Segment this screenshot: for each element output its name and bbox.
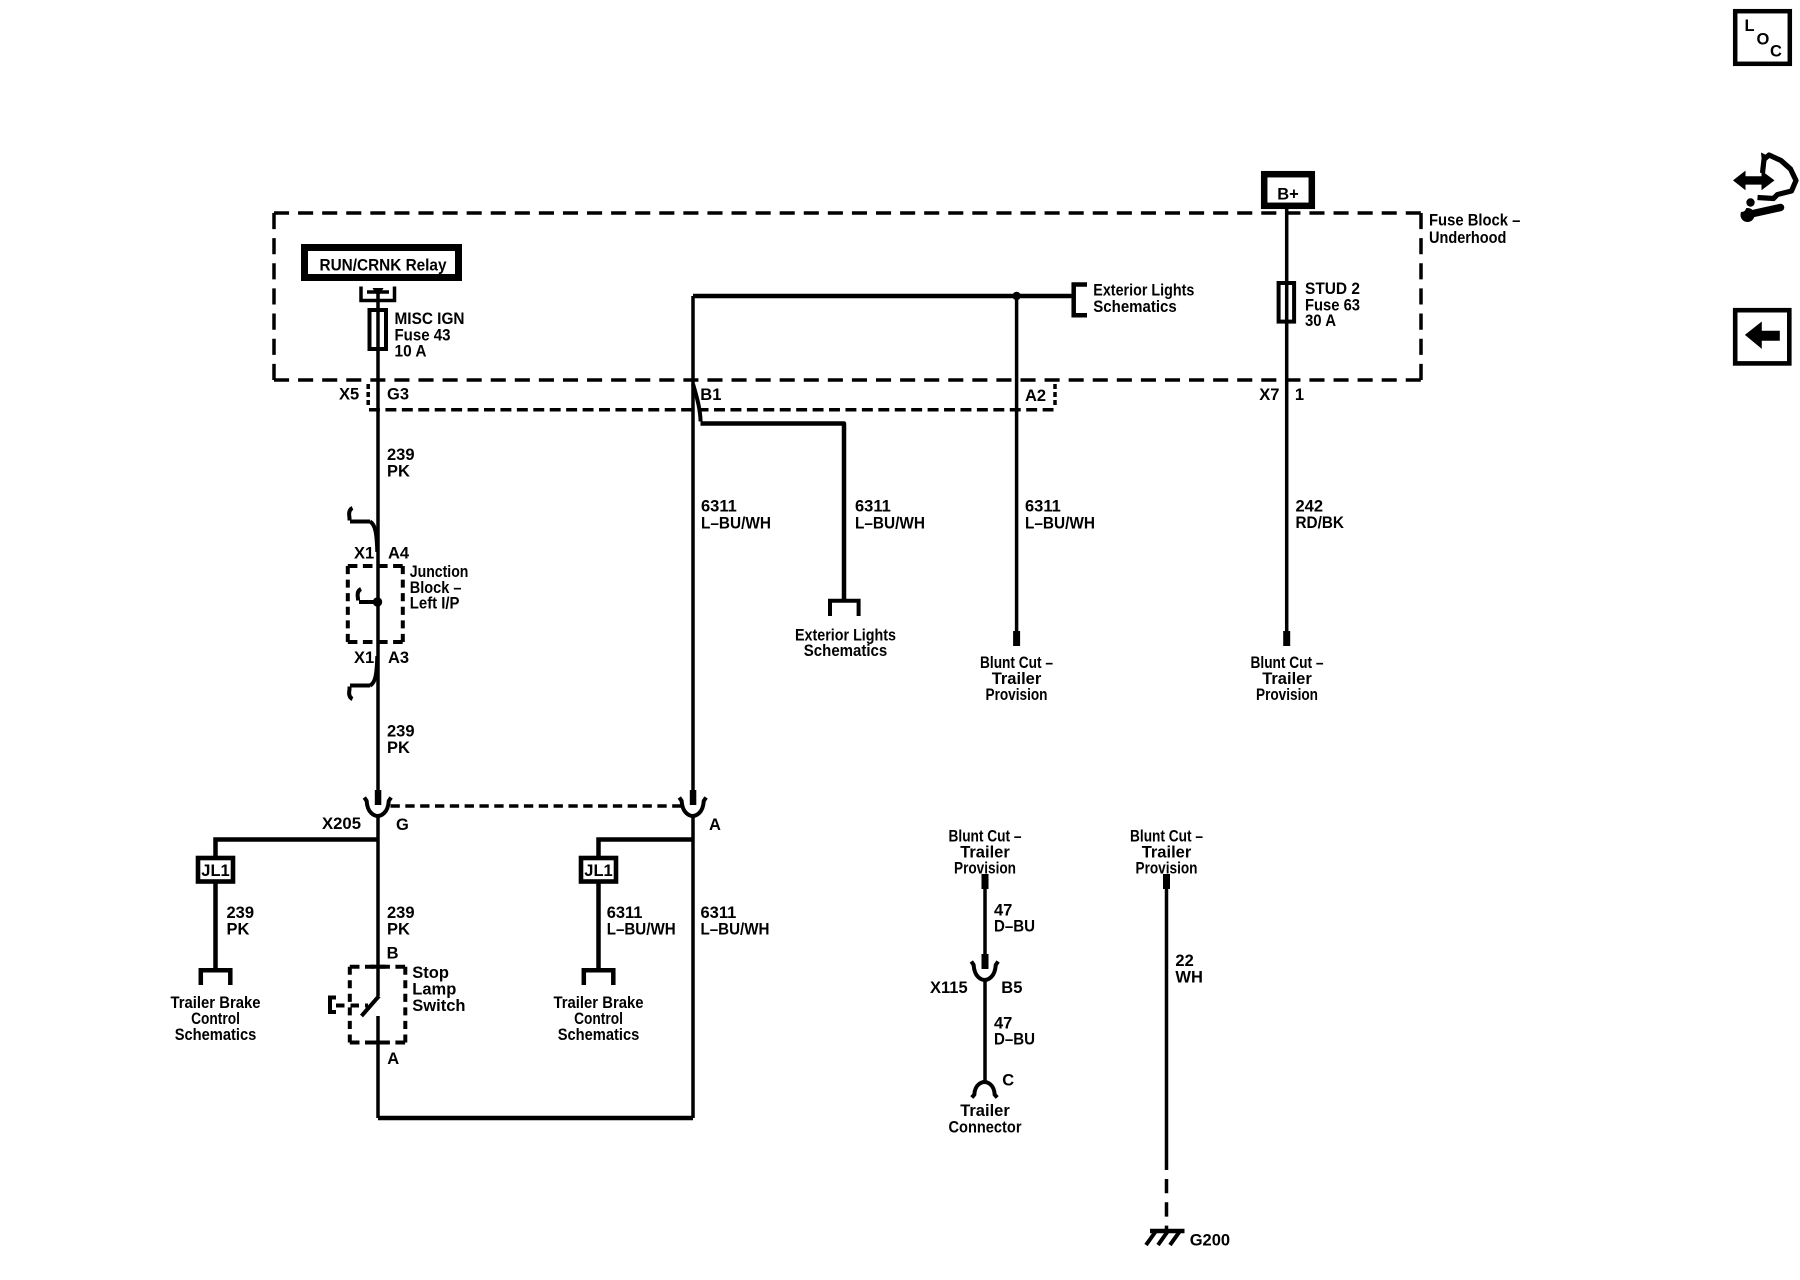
- wire bottom loop horizontal: [378, 1116, 693, 1121]
- svg-text:B: B: [387, 945, 399, 963]
- svg-text:PK: PK: [227, 921, 250, 939]
- svg-text:6311: 6311: [607, 904, 643, 922]
- svg-text:L–BU/WH: L–BU/WH: [855, 515, 925, 533]
- label MISC IGN Fuse 43 10 A: [395, 310, 465, 360]
- svg-text:L–BU/WH: L–BU/WH: [607, 921, 676, 939]
- off-page symbol Trailer Brake Control (left, down bracket): [201, 970, 231, 985]
- svg-text:STUD 2: STUD 2: [1305, 280, 1360, 298]
- wire 47 D-BU upper: [983, 889, 987, 954]
- label Trailer Brake Control Schematics (right): [554, 994, 644, 1044]
- svg-text:Stop: Stop: [412, 964, 449, 982]
- svg-text:L–BU/WH: L–BU/WH: [701, 921, 770, 939]
- splice JL1 right box: [581, 858, 616, 882]
- B+ power terminal: [1264, 174, 1312, 206]
- label 239 PK middle: [387, 723, 415, 758]
- svg-text:Trailer: Trailer: [960, 1102, 1010, 1120]
- wire 239 PK from relay to junction block (vertical): [376, 295, 380, 790]
- svg-text:X1: X1: [354, 649, 374, 667]
- label Blunt Cut - Trailer Provision (above X115): [949, 828, 1022, 878]
- wire 47 D-BU lower: [983, 979, 987, 1084]
- off-page bracket Exterior Lights Schematics (top right): [1074, 285, 1087, 316]
- fuse STUD 2 Fuse 63: [1279, 283, 1295, 322]
- svg-text:Left I/P: Left I/P: [410, 595, 460, 613]
- svg-text:239: 239: [387, 723, 415, 741]
- connector X5 dashed line: [369, 408, 1054, 412]
- svg-text:G3: G3: [387, 386, 409, 404]
- svg-text:X7: X7: [1259, 386, 1279, 404]
- svg-text:A4: A4: [388, 545, 410, 563]
- connector X5 separator tick: [366, 384, 370, 405]
- label Junction Block - Left I/P: [410, 563, 469, 613]
- fuse MISC IGN Fuse 43: [370, 310, 387, 349]
- label STUD 2 Fuse 63 30 A: [1305, 280, 1360, 330]
- svg-text:JL1: JL1: [584, 862, 612, 880]
- svg-text:Fuse Block –: Fuse Block –: [1429, 212, 1520, 230]
- label 6311 L-BU/WH (right of wire A): [701, 904, 770, 939]
- trailer connector arc: [972, 1082, 997, 1098]
- wire branch horizontal to middle 6311 drop: [701, 424, 845, 601]
- junction block internal splice hook with dot: [358, 589, 383, 607]
- svg-text:D–BU: D–BU: [994, 1031, 1035, 1049]
- svg-text:RD/BK: RD/BK: [1296, 514, 1345, 532]
- svg-text:6311: 6311: [701, 498, 737, 516]
- svg-text:C: C: [1002, 1072, 1014, 1090]
- icon diagnostic arrow and wrench: [1733, 153, 1796, 223]
- svg-text:PK: PK: [387, 463, 410, 481]
- svg-text:242: 242: [1296, 498, 1324, 516]
- wire 239 PK X205 to stop lamp switch: [376, 814, 380, 996]
- svg-text:G200: G200: [1190, 1232, 1230, 1250]
- label Stop Lamp Switch: [412, 964, 465, 1015]
- stop lamp switch blade: [362, 996, 380, 1016]
- RUN/CRNK Relay label box: [305, 248, 459, 278]
- label Trailer Brake Control Schematics (left): [171, 994, 261, 1044]
- blunt cut symbol (47 D-BU wire top): [982, 874, 989, 889]
- svg-text:A2: A2: [1025, 387, 1046, 405]
- label Blunt Cut - Trailer Provision (above 22 WH wire): [1130, 828, 1203, 878]
- svg-text:WH: WH: [1175, 969, 1203, 987]
- label Exterior Lights Schematics (middle): [795, 627, 896, 661]
- stop lamp switch actuator dashes: [336, 1004, 368, 1008]
- svg-text:Provision: Provision: [986, 686, 1048, 704]
- off-page symbol Exterior Lights Schematics (middle, down bracket): [830, 601, 859, 616]
- svg-text:L–BU/WH: L–BU/WH: [701, 515, 771, 533]
- svg-text:6311: 6311: [1025, 498, 1061, 516]
- label Blunt Cut - Trailer Provision (under A2 wire): [980, 654, 1053, 704]
- svg-text:A: A: [709, 816, 721, 834]
- connector X115 male pin: [982, 954, 989, 969]
- label 6311 L-BU/WH (JL1 right): [607, 904, 676, 939]
- wire 242 RD/BK B+ to blunt cut (vertical): [1285, 207, 1289, 631]
- off-page symbol Trailer Brake Control (right, down bracket): [584, 970, 614, 985]
- label 239 PK (above switch): [387, 904, 415, 939]
- svg-text:O: O: [1757, 31, 1770, 49]
- svg-text:RUN/CRNK Relay: RUN/CRNK Relay: [320, 257, 448, 275]
- svg-text:L: L: [1745, 17, 1755, 35]
- connector A2 separator tick: [1053, 384, 1057, 405]
- blunt cut symbol (22 WH wire): [1163, 874, 1170, 889]
- svg-text:Provision: Provision: [1256, 686, 1318, 704]
- wire branch to JL1 left: [216, 840, 379, 857]
- label Fuse Block - Underhood: [1429, 212, 1520, 248]
- svg-text:Schematics: Schematics: [175, 1026, 257, 1044]
- svg-text:Schematics: Schematics: [558, 1026, 640, 1044]
- wire JL1 right to off-page symbol: [596, 881, 601, 968]
- icon back arrow box: [1735, 310, 1789, 363]
- svg-text:PK: PK: [387, 739, 410, 757]
- svg-text:6311: 6311: [701, 904, 737, 922]
- svg-text:X115: X115: [930, 979, 968, 997]
- stop lamp switch dashed box: [350, 967, 406, 1043]
- svg-text:Lamp: Lamp: [412, 981, 456, 999]
- relay contact symbol: [361, 287, 395, 301]
- svg-text:30 A: 30 A: [1305, 312, 1336, 330]
- splice JL1 left box: [198, 858, 233, 882]
- label 242 RD/BK: [1296, 498, 1345, 533]
- label 47 D-BU lower: [994, 1015, 1035, 1049]
- svg-text:Connector: Connector: [949, 1119, 1023, 1137]
- connector X205 pin A: female cup: [679, 798, 706, 817]
- wire 6311 L-BU/WH B1 vertical: [691, 296, 695, 790]
- wire 22 WH dashed to ground: [1165, 1179, 1169, 1231]
- junction block left I/P dashed box: [348, 566, 403, 642]
- connector X115 female cup: [971, 962, 998, 981]
- svg-text:22: 22: [1175, 952, 1193, 970]
- label 239 PK (JL1 left): [227, 904, 255, 939]
- connector X205 dashed line: [391, 804, 682, 808]
- svg-text:1: 1: [1295, 386, 1304, 404]
- svg-text:239: 239: [387, 904, 415, 922]
- label Blunt Cut - Trailer Provision (under 242 wire): [1251, 654, 1324, 704]
- connector X1 A4 hook symbol: [349, 508, 377, 552]
- svg-text:Schematics: Schematics: [804, 642, 887, 660]
- label Trailer Connector: [949, 1102, 1023, 1137]
- blunt cut symbol (A2 wire): [1013, 631, 1020, 646]
- svg-text:Underhood: Underhood: [1429, 229, 1506, 247]
- svg-text:X5: X5: [339, 386, 359, 404]
- svg-text:B5: B5: [1001, 979, 1022, 997]
- wire 22 WH solid: [1165, 889, 1169, 1170]
- svg-text:L–BU/WH: L–BU/WH: [1025, 515, 1095, 533]
- connector X205 pin G: female cup: [364, 798, 391, 817]
- wire JL1 left to off-page symbol: [213, 881, 218, 968]
- connector X1 A3 hook symbol: [349, 656, 377, 699]
- connector X205 pin A: male pin: [690, 790, 697, 805]
- label 6311 L-BU/WH (middle column): [855, 498, 925, 533]
- wire from switch A to bottom loop: [376, 1016, 380, 1118]
- wire 6311 L-BU/WH A2 vertical to blunt cut: [1015, 296, 1019, 631]
- junction dot A2 wire on top horizontal: [1012, 292, 1020, 300]
- svg-text:D–BU: D–BU: [994, 918, 1035, 936]
- stop lamp switch actuator bracket: [330, 998, 336, 1013]
- icon LOC box: [1735, 11, 1790, 64]
- svg-text:C: C: [1770, 43, 1782, 61]
- svg-text:JL1: JL1: [201, 862, 229, 880]
- blunt cut symbol (242 wire): [1283, 631, 1290, 646]
- connector X205 pin G: male pin: [375, 790, 382, 805]
- svg-text:G: G: [396, 816, 409, 834]
- label Exterior Lights Schematics (top right): [1093, 282, 1194, 316]
- label 22 WH: [1175, 952, 1203, 987]
- svg-text:239: 239: [387, 446, 415, 464]
- svg-text:Schematics: Schematics: [1093, 298, 1176, 316]
- wire branch curve at B1: [693, 384, 701, 422]
- svg-text:10 A: 10 A: [395, 342, 427, 360]
- fuse block underhood dashed box: [274, 213, 1421, 380]
- svg-text:6311: 6311: [855, 498, 891, 516]
- label 47 D-BU upper: [994, 902, 1035, 936]
- wire branch to JL1 right: [599, 840, 694, 857]
- svg-text:Switch: Switch: [412, 997, 465, 1015]
- label 6311 L-BU/WH (left column under B1): [701, 498, 771, 533]
- svg-text:A: A: [387, 1050, 399, 1068]
- wire 6311 top horizontal to Exterior Lights bracket: [693, 294, 1072, 299]
- label 239 PK upper: [387, 446, 415, 481]
- svg-text:239: 239: [227, 904, 255, 922]
- svg-text:PK: PK: [387, 921, 410, 939]
- svg-text:B+: B+: [1277, 186, 1299, 204]
- ground G200 symbol: [1146, 1231, 1185, 1245]
- svg-text:A3: A3: [388, 649, 409, 667]
- svg-text:X205: X205: [322, 815, 361, 833]
- svg-text:Exterior Lights: Exterior Lights: [1093, 282, 1194, 300]
- svg-text:B1: B1: [700, 386, 721, 404]
- wire 6311 below connector A: [691, 814, 695, 1118]
- svg-text:X1: X1: [354, 545, 374, 563]
- label 6311 L-BU/WH (right column A2): [1025, 498, 1095, 533]
